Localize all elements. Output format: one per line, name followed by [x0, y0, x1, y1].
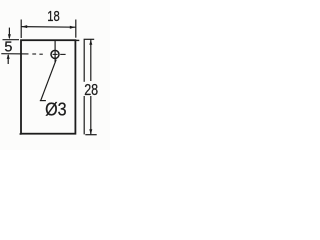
svg-text:5: 5: [4, 39, 12, 56]
svg-text:18: 18: [47, 8, 60, 25]
svg-text:28: 28: [84, 82, 98, 99]
svg-text:Ø3: Ø3: [45, 98, 67, 119]
